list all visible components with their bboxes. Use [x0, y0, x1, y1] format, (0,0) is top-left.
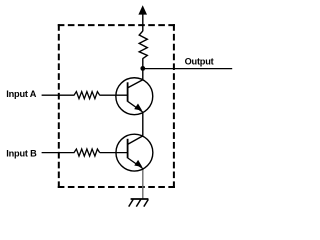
svg-text:Input B: Input B: [6, 148, 37, 158]
svg-text:Input A: Input A: [6, 89, 36, 99]
svg-text:Output: Output: [185, 56, 214, 66]
